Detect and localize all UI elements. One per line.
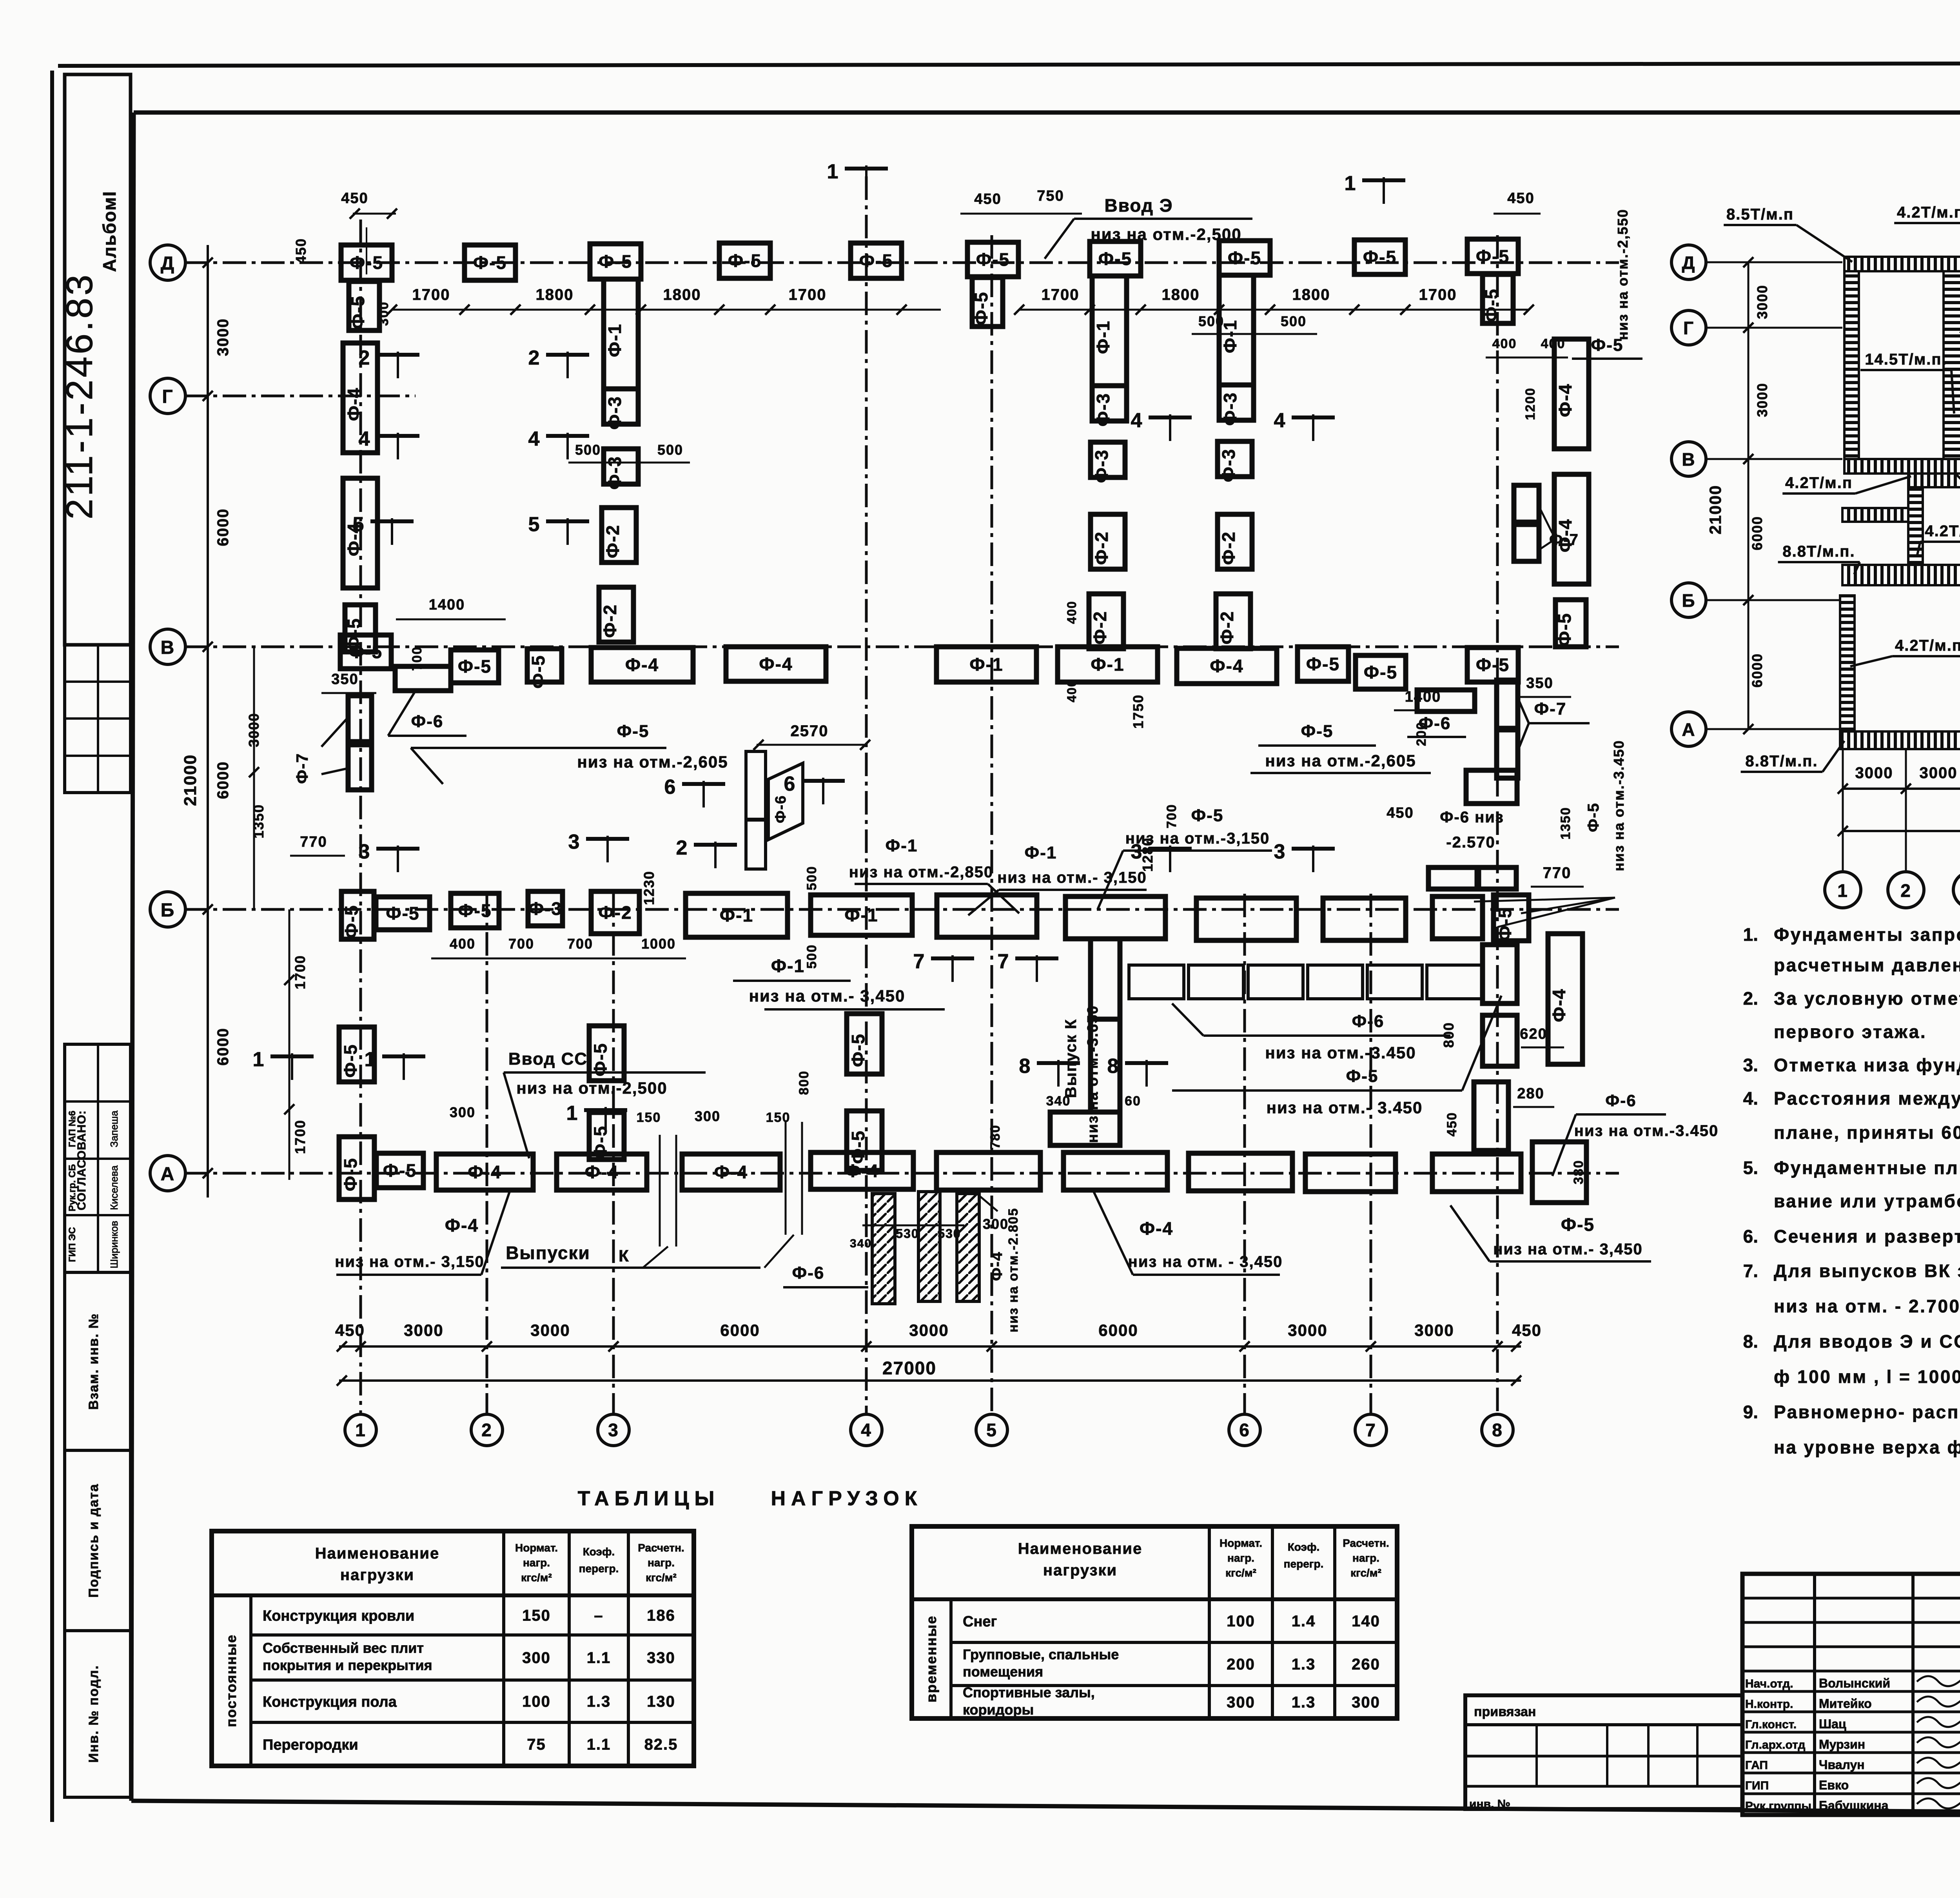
svg-text:Н.контр.: Н.контр.	[1745, 1698, 1793, 1711]
block Ф-6 row В	[395, 666, 451, 691]
note line Расстояния между	[1743, 1088, 1960, 1109]
note line Фундаментные плит	[1743, 1158, 1960, 1178]
svg-text:6000: 6000	[214, 508, 232, 546]
svg-text:300: 300	[695, 1108, 720, 1124]
svg-text:8: 8	[1492, 1420, 1503, 1440]
svg-text:Ф-5: Ф-5	[340, 1044, 361, 1078]
scheme column circle 3	[1953, 749, 1960, 908]
block Ф-2 strip col6 d	[1216, 594, 1250, 649]
dims 500 500 rotated col4	[804, 866, 819, 969]
scheme load label 4.2Т/м.п l2	[1894, 204, 1960, 262]
block Ф-5 row В b10	[1356, 655, 1406, 689]
svg-text:340: 340	[850, 1237, 872, 1250]
plan: horizontal axis line А	[184, 1172, 1619, 1175]
svg-text:Ф-5: Ф-5	[458, 656, 492, 677]
block Ф-4 strip col1 upper	[343, 343, 377, 453]
svg-text:450: 450	[293, 238, 309, 264]
svg-text:Ф-1: Ф-1	[1093, 320, 1113, 354]
svg-text:Ф-3: Ф-3	[1220, 392, 1240, 426]
block wall col5 foot	[1050, 1112, 1120, 1145]
svg-text:кгс/м²: кгс/м²	[1350, 1567, 1381, 1579]
plan: column circle 6	[1229, 1414, 1260, 1446]
svg-text:Ф-5: Ф-5	[458, 900, 492, 921]
note line ф 100 мм , l = 10	[1774, 1366, 1960, 1387]
svg-text:750: 750	[1037, 188, 1064, 204]
svg-text:2: 2	[1900, 880, 1911, 901]
section mark 3 at k	[1131, 840, 1192, 872]
svg-text:770: 770	[300, 834, 327, 850]
svg-text:нагр.: нагр.	[1352, 1552, 1379, 1564]
dims 400 400 rotated row В col5	[1065, 601, 1079, 702]
svg-text:1.4: 1.4	[1292, 1613, 1316, 1630]
svg-text:Ф-5: Ф-5	[1561, 1214, 1595, 1235]
label Ввод СС with leader	[504, 1049, 706, 1158]
svg-text:400: 400	[1065, 679, 1079, 702]
svg-text:Ф-4: Ф-4	[1549, 988, 1569, 1022]
svg-text:Ф-6: Ф-6	[411, 712, 444, 731]
svg-text:Ширинков: Ширинков	[108, 1221, 120, 1268]
label Ф-7 pair right	[1541, 510, 1579, 549]
svg-text:2: 2	[359, 347, 371, 369]
svg-text:Запеша: Запеша	[108, 1110, 120, 1147]
svg-text:3000: 3000	[404, 1321, 443, 1339]
svg-text:Ф-5: Ф-5	[617, 722, 650, 741]
svg-text:150: 150	[522, 1607, 551, 1624]
svg-text:А: А	[1682, 719, 1695, 740]
svg-text:8.: 8.	[1743, 1331, 1758, 1352]
svg-text:6: 6	[784, 773, 796, 795]
svg-text:7.: 7.	[1743, 1261, 1758, 1281]
block Ф-5 row Д a4	[719, 243, 770, 278]
svg-text:низ на отм.-2,605: низ на отм.-2,605	[577, 753, 728, 771]
svg-text:Ф-7: Ф-7	[1549, 531, 1579, 548]
section mark 5 at f	[528, 513, 589, 545]
svg-text:Ф-2: Ф-2	[1217, 611, 1237, 644]
svg-text:7: 7	[998, 950, 1010, 973]
svg-text:Ф-1: Ф-1	[604, 323, 625, 357]
svg-text:Ввод Э: Ввод Э	[1104, 195, 1173, 216]
svg-text:530: 530	[938, 1227, 961, 1241]
svg-text:3: 3	[359, 840, 371, 863]
block Ф-5 row Д a2	[465, 245, 515, 280]
block Ф-5 row Б c1	[376, 897, 430, 930]
label Ф-5 низ на отм.-3.450 mid	[1172, 996, 1501, 1117]
block Ф-5 mid col4 a	[847, 1014, 882, 1074]
svg-text:Д: Д	[1682, 252, 1696, 273]
svg-text:380: 380	[1571, 1160, 1586, 1185]
svg-text:1.1: 1.1	[587, 1736, 611, 1753]
svg-text:Ф-1: Ф-1	[886, 836, 918, 855]
svg-text:6.: 6.	[1743, 1226, 1758, 1247]
svg-text:350: 350	[331, 671, 358, 688]
plan: vertical axis line column 5	[991, 235, 993, 1414]
block Ф-5 row А e10	[1432, 1154, 1521, 1192]
svg-text:Ф-5: Ф-5	[728, 250, 762, 271]
plan total dim 27000	[337, 1358, 1521, 1386]
svg-text:1800: 1800	[536, 286, 574, 303]
svg-text:150: 150	[637, 1110, 661, 1125]
block Ф-4 row А e5	[811, 1152, 913, 1189]
pipe выпуск near col2	[643, 1135, 676, 1268]
svg-text:кгс/м²: кгс/м²	[521, 1571, 552, 1584]
svg-text:6000: 6000	[720, 1321, 760, 1339]
plan: horizontal axis line Г	[184, 395, 416, 397]
svg-text:Ф-4: Ф-4	[1140, 1218, 1173, 1239]
block Ф-1 row Б c9	[1196, 898, 1296, 940]
svg-text:Коэф.: Коэф.	[583, 1546, 615, 1558]
block Ф-5 row Б c11	[1432, 896, 1483, 939]
svg-text:ГИП: ГИП	[1745, 1779, 1769, 1792]
album label АльбомI	[99, 191, 120, 272]
svg-text:низ на отм. - 2.700 , кроме: низ на отм. - 2.700 , кроме оговоренных	[1774, 1296, 1960, 1316]
svg-text:коридоры: коридоры	[963, 1702, 1034, 1718]
label Ф-6 низ на отм.-3.450 right horizontal	[1552, 1091, 1719, 1176]
label Ф-6 row В right	[1407, 714, 1466, 737]
svg-text:К: К	[619, 1247, 630, 1265]
block Ф-4 row В b8	[1177, 648, 1277, 684]
block Ф-7 left a	[348, 696, 372, 742]
svg-text:Ф-6: Ф-6	[1605, 1091, 1636, 1110]
svg-text:82.5: 82.5	[644, 1736, 678, 1753]
svg-text:400: 400	[450, 936, 475, 952]
section mark 2 at j2	[676, 836, 737, 868]
plan: column circle 7	[1355, 1414, 1387, 1446]
svg-text:Ф-5: Ф-5	[340, 1158, 361, 1191]
block Ф-5 stub col5	[971, 278, 1003, 327]
svg-text:Ф-4: Ф-4	[344, 387, 364, 421]
note line За условную отме	[1743, 988, 1960, 1009]
svg-text:3000: 3000	[1754, 383, 1770, 417]
svg-text:Нач.отд.: Нач.отд.	[1745, 1677, 1793, 1690]
svg-text:8.8Т/м.п.: 8.8Т/м.п.	[1745, 753, 1818, 770]
note line Отметка низа фун	[1743, 1055, 1960, 1075]
block Ф-4 row А e4	[682, 1154, 780, 1190]
svg-text:150: 150	[766, 1110, 791, 1125]
svg-text:9.: 9.	[1743, 1402, 1758, 1422]
section mark 6 at n	[784, 773, 845, 804]
svg-text:400: 400	[1541, 336, 1566, 351]
svg-text:Ф-6: Ф-6	[773, 795, 789, 823]
scheme load label 4.2Т/м.п. l14	[1917, 523, 1960, 557]
dim 280 right	[1513, 1085, 1554, 1107]
svg-text:450: 450	[1387, 805, 1414, 821]
svg-text:временные: временные	[923, 1615, 939, 1703]
svg-text:450: 450	[335, 1321, 365, 1339]
plan: vertical axis line column 3	[612, 894, 615, 1414]
svg-text:7: 7	[913, 950, 926, 973]
dim 2570	[753, 722, 870, 750]
svg-text:постоянные: постоянные	[223, 1634, 239, 1727]
label Ф-7 right	[1519, 699, 1590, 747]
block Ф-5 col8 mid	[1466, 770, 1517, 804]
svg-text:Митейко: Митейко	[1819, 1697, 1872, 1711]
svg-text:Ф-5: Ф-5	[1363, 247, 1397, 267]
svg-text:1800: 1800	[663, 286, 701, 303]
svg-text:Ф-4: Ф-4	[1555, 383, 1575, 417]
dim 350 left	[321, 671, 376, 693]
svg-text:3.: 3.	[1743, 1055, 1758, 1075]
svg-text:700: 700	[567, 936, 593, 952]
svg-text:низ на отм.-3.450: низ на отм.-3.450	[1265, 1043, 1416, 1062]
dim 350 right	[1516, 675, 1571, 697]
svg-text:Ф-6 низ: Ф-6 низ	[1440, 809, 1504, 826]
block Ф-5 row Д a6	[1090, 241, 1141, 276]
block Ф-4 strip col8 upper	[1554, 339, 1589, 449]
svg-text:низ на отм.-3.450: низ на отм.-3.450	[1611, 740, 1627, 871]
svg-text:Нормат.: Нормат.	[1220, 1537, 1262, 1549]
svg-text:450: 450	[1445, 1112, 1459, 1137]
svg-text:кгс/м²: кгс/м²	[646, 1571, 677, 1584]
scheme left dim chain	[1706, 257, 1770, 734]
svg-text:нагрузки: нагрузки	[340, 1566, 414, 1584]
svg-text:700: 700	[508, 936, 534, 952]
svg-text:низ на отм. - 3,450: низ на отм. - 3,450	[1128, 1253, 1283, 1270]
svg-text:500: 500	[657, 442, 683, 458]
svg-text:100: 100	[1227, 1613, 1255, 1630]
plan: vertical axis line column 4	[865, 176, 868, 1414]
block Ф-1 strip col5	[1092, 276, 1127, 386]
svg-text:Ф-3: Ф-3	[604, 456, 625, 490]
block Ф-4 row А e9	[1305, 1154, 1396, 1192]
svg-text:5: 5	[353, 513, 365, 536]
label Ф-5 низ на отм.-2,605 right	[1250, 722, 1431, 773]
svg-text:Подпись и дата: Подпись и дата	[86, 1483, 101, 1597]
svg-text:ф 100 мм , l = 1000 мм, шт.: ф 100 мм , l = 1000 мм, шт. 3.	[1774, 1366, 1960, 1387]
svg-text:Ф-5: Ф-5	[350, 252, 383, 273]
section mark 1 at v	[827, 160, 888, 192]
svg-text:Ф-5: Ф-5	[528, 655, 548, 688]
svg-text:нагр.: нагр.	[648, 1557, 675, 1569]
svg-text:211-1-246.83: 211-1-246.83	[59, 272, 100, 519]
block col8 strip a	[1483, 945, 1517, 1003]
block Ф-7 right b	[1497, 730, 1518, 778]
svg-text:800: 800	[797, 1071, 811, 1095]
block col8 strip b	[1483, 1015, 1517, 1066]
svg-text:Ф-3: Ф-3	[1091, 449, 1112, 483]
svg-text:1350: 1350	[250, 804, 267, 838]
block Ф-5 row Б c12	[1494, 895, 1529, 941]
svg-text:140: 140	[1352, 1613, 1380, 1630]
section mark 3 at i	[359, 840, 419, 872]
plan: axis circle Б	[150, 892, 185, 927]
svg-text:низ на отм.- 3,450: низ на отм.- 3,450	[1493, 1241, 1643, 1258]
svg-text:1230: 1230	[641, 871, 657, 905]
block Ф-4 row А e2	[436, 1154, 533, 1190]
svg-text:Ф-4: Ф-4	[714, 1162, 748, 1182]
svg-text:Б: Б	[1682, 590, 1695, 611]
svg-text:Киселева: Киселева	[108, 1165, 120, 1210]
block Ф-4 row А e8	[1189, 1153, 1292, 1191]
svg-text:ГИП ЭС: ГИП ЭС	[67, 1227, 78, 1262]
svg-text:3000: 3000	[1855, 764, 1893, 782]
block Ф-7 left b	[348, 745, 372, 790]
scheme load label 14.5Т/м.п. l6	[1860, 351, 1954, 414]
scheme axis circle Г	[1671, 310, 1842, 345]
block Ф-4 row В b4	[591, 648, 693, 682]
margin cell Инв. № подл.	[65, 1631, 131, 1797]
section mark 1 at s	[253, 1048, 314, 1080]
block Ф-6 pair right b	[1479, 867, 1516, 889]
block Ф-3 strip col3 a	[604, 389, 638, 430]
svg-text:Ф-5: Ф-5	[1306, 654, 1340, 674]
svg-text:низ на отм.-2,550: низ на отм.-2,550	[1615, 209, 1631, 340]
svg-text:Ф-4: Ф-4	[845, 1161, 879, 1181]
svg-text:низ на отм.-2,605: низ на отм.-2,605	[1265, 751, 1416, 770]
block Ф-1 strip col6	[1219, 275, 1254, 385]
svg-text:Конструкция кровли: Конструкция кровли	[263, 1608, 414, 1624]
block Ф-5 mid col4 b	[847, 1111, 882, 1170]
svg-text:Нормат.: Нормат.	[515, 1542, 558, 1554]
svg-text:8.8Т/м.п.: 8.8Т/м.п.	[1782, 543, 1855, 560]
svg-text:Ф-4: Ф-4	[585, 1162, 619, 1182]
scheme middle floor walls	[1842, 474, 1960, 585]
dim 770 right	[1531, 864, 1584, 887]
svg-text:1: 1	[355, 1420, 366, 1440]
dim 770 left	[290, 834, 345, 856]
label Ф-6 низ -2.570 mid right	[1387, 805, 1504, 851]
svg-text:Расчетн.: Расчетн.	[1343, 1537, 1389, 1549]
svg-text:Ф-5: Ф-5	[1364, 662, 1397, 682]
label Ф-1 низ на отм.-2,850	[849, 836, 1019, 913]
svg-text:низ на отм.- 3.450: низ на отм.- 3.450	[1267, 1098, 1423, 1117]
dim 340 60 near col5 foot	[1046, 1094, 1141, 1109]
svg-text:Г: Г	[1683, 318, 1694, 338]
svg-text:Ввод СС: Ввод СС	[508, 1049, 588, 1069]
svg-text:Ф-5: Ф-5	[349, 642, 383, 662]
section mark 7 at r	[998, 950, 1058, 982]
svg-text:Ф-5: Ф-5	[1301, 722, 1334, 741]
dims 1400 700 row В left	[396, 597, 506, 671]
svg-text:плане, приняты 600 мм.: плане, приняты 600 мм.	[1774, 1122, 1960, 1143]
block Ф-5 row А e0	[339, 1137, 374, 1199]
svg-text:1.3: 1.3	[1292, 1694, 1316, 1711]
block Ф-5 strip col8 end	[1554, 600, 1586, 647]
note line Равномерно- распре	[1743, 1402, 1960, 1422]
block Ф-5 mid col3	[589, 1026, 624, 1081]
svg-text:Ф-3: Ф-3	[528, 898, 562, 919]
label Ф-6 bottom left leader	[783, 1263, 868, 1287]
block Ф-5 row Б c0	[341, 891, 374, 939]
svg-text:Мурзин: Мурзин	[1819, 1737, 1865, 1751]
svg-text:Ф-7: Ф-7	[1534, 699, 1567, 719]
block Ф-4 strip col1 lower	[343, 478, 377, 588]
block Ф-6 row В right	[1417, 690, 1475, 711]
svg-text:1700: 1700	[1419, 286, 1457, 303]
section mark 4 at h	[1274, 409, 1335, 441]
svg-text:4.2Т/м.п: 4.2Т/м.п	[1785, 474, 1853, 492]
block Ф-4 row А e7	[1063, 1152, 1167, 1190]
svg-text:780: 780	[988, 1125, 1003, 1149]
svg-text:нагрузки: нагрузки	[1043, 1562, 1117, 1579]
svg-text:4.: 4.	[1743, 1088, 1758, 1109]
plan: horizontal axis line Д	[184, 261, 1619, 264]
label Ф-1 низ на отм.-3,450	[733, 956, 945, 1009]
svg-text:Гл.арх.отд: Гл.арх.отд	[1745, 1738, 1805, 1751]
block Ф-3 strip col6 a	[1219, 385, 1254, 426]
svg-text:низ на отм.-2,850: низ на отм.-2,850	[849, 864, 993, 881]
plan top dimension chain left half	[387, 286, 941, 315]
title block привязан box	[1465, 1695, 1742, 1811]
svg-text:нагр.: нагр.	[523, 1557, 550, 1569]
svg-text:450: 450	[341, 190, 368, 207]
scheme total dim 27000	[1838, 808, 1960, 836]
svg-text:Ф-5: Ф-5	[1098, 249, 1132, 269]
svg-text:3000: 3000	[214, 318, 232, 356]
dims 1400 200 row В right	[1394, 689, 1468, 746]
block Ф-1 row В b7	[1058, 647, 1158, 682]
svg-text:Ф-2: Ф-2	[598, 902, 632, 923]
title block signatures scribbles	[1917, 1676, 1960, 1809]
plan: column circle 1	[345, 1414, 376, 1446]
label Ф-4 низ на отм.-2.805 rotated	[972, 1190, 1021, 1332]
svg-text:Ф-1: Ф-1	[1025, 843, 1057, 862]
svg-text:Чвалун: Чвалун	[1819, 1758, 1865, 1772]
svg-text:620: 620	[1520, 1026, 1547, 1042]
svg-text:5.: 5.	[1743, 1158, 1758, 1178]
block Ф-5 row В b1	[340, 635, 391, 669]
section mark 3 at j	[568, 831, 629, 862]
svg-text:Собственный вес плит: Собственный вес плит	[263, 1640, 424, 1656]
block Ф-3 strip col5 a	[1092, 386, 1127, 426]
section mark 2 at a	[359, 347, 419, 378]
svg-text:Снег: Снег	[963, 1613, 997, 1630]
svg-text:4.2Т/м.п.: 4.2Т/м.п.	[1925, 523, 1960, 540]
handwritten album number 211-1-246.83	[59, 272, 100, 519]
svg-text:1800: 1800	[1292, 286, 1330, 303]
block Ф-5 row А e1	[376, 1153, 423, 1188]
svg-text:перегр.: перегр.	[579, 1562, 619, 1575]
dim 780 rotated col4 bottom	[988, 1125, 1003, 1149]
svg-text:1800: 1800	[1162, 286, 1200, 303]
block Ф-3 strip col6 b	[1218, 441, 1252, 482]
plan: vertical axis line column 6	[1243, 894, 1246, 1414]
plan: column circle 4	[851, 1414, 882, 1446]
svg-text:привязан: привязан	[1474, 1704, 1536, 1719]
block Ф-5 row В b9	[1298, 647, 1348, 681]
block Ф-7 right a	[1497, 680, 1518, 728]
svg-text:4: 4	[1274, 409, 1286, 432]
svg-text:низ на отм.-2,500: низ на отм.-2,500	[1091, 225, 1241, 243]
svg-text:Ф-2: Ф-2	[1091, 531, 1112, 565]
svg-text:Ф-5: Ф-5	[1476, 246, 1510, 267]
block Ф-5 row Д a7	[1219, 241, 1270, 275]
block right mid b	[1532, 1142, 1586, 1203]
plan: horizontal axis line В	[184, 646, 1619, 648]
svg-text:Ф-5: Ф-5	[1481, 288, 1502, 322]
pipe выпуск near col3	[764, 1122, 802, 1268]
note line вание или утрамб	[1774, 1191, 1960, 1211]
block Ф-4 right mid	[1548, 934, 1583, 1064]
svg-text:300: 300	[450, 1104, 475, 1120]
section mark 8 at p	[1107, 1055, 1168, 1087]
svg-text:700: 700	[1164, 804, 1179, 829]
svg-text:Ф-2: Ф-2	[600, 604, 620, 638]
svg-text:Конструкция пола: Конструкция пола	[263, 1694, 397, 1710]
svg-text:Фундаменты запроектированы д: Фундаменты запроектированы для сухих неп…	[1774, 924, 1960, 945]
band of Ф-6 blocks mid plan	[1129, 965, 1482, 999]
dim 1350 rotated col8	[1558, 807, 1573, 840]
label Ф-4 низ на отм.-3.150 under row А	[335, 1192, 510, 1275]
svg-text:Д: Д	[161, 253, 175, 274]
left margin stamp column	[65, 74, 131, 645]
scheme upper-left block walls	[1844, 257, 1960, 474]
svg-text:21000: 21000	[1706, 485, 1724, 535]
svg-text:-2.570: -2.570	[1446, 834, 1495, 851]
svg-text:Ф-6: Ф-6	[792, 1263, 825, 1283]
svg-text:2: 2	[676, 836, 688, 859]
svg-text:5: 5	[986, 1420, 997, 1440]
section mark 1 at u	[1345, 172, 1405, 204]
